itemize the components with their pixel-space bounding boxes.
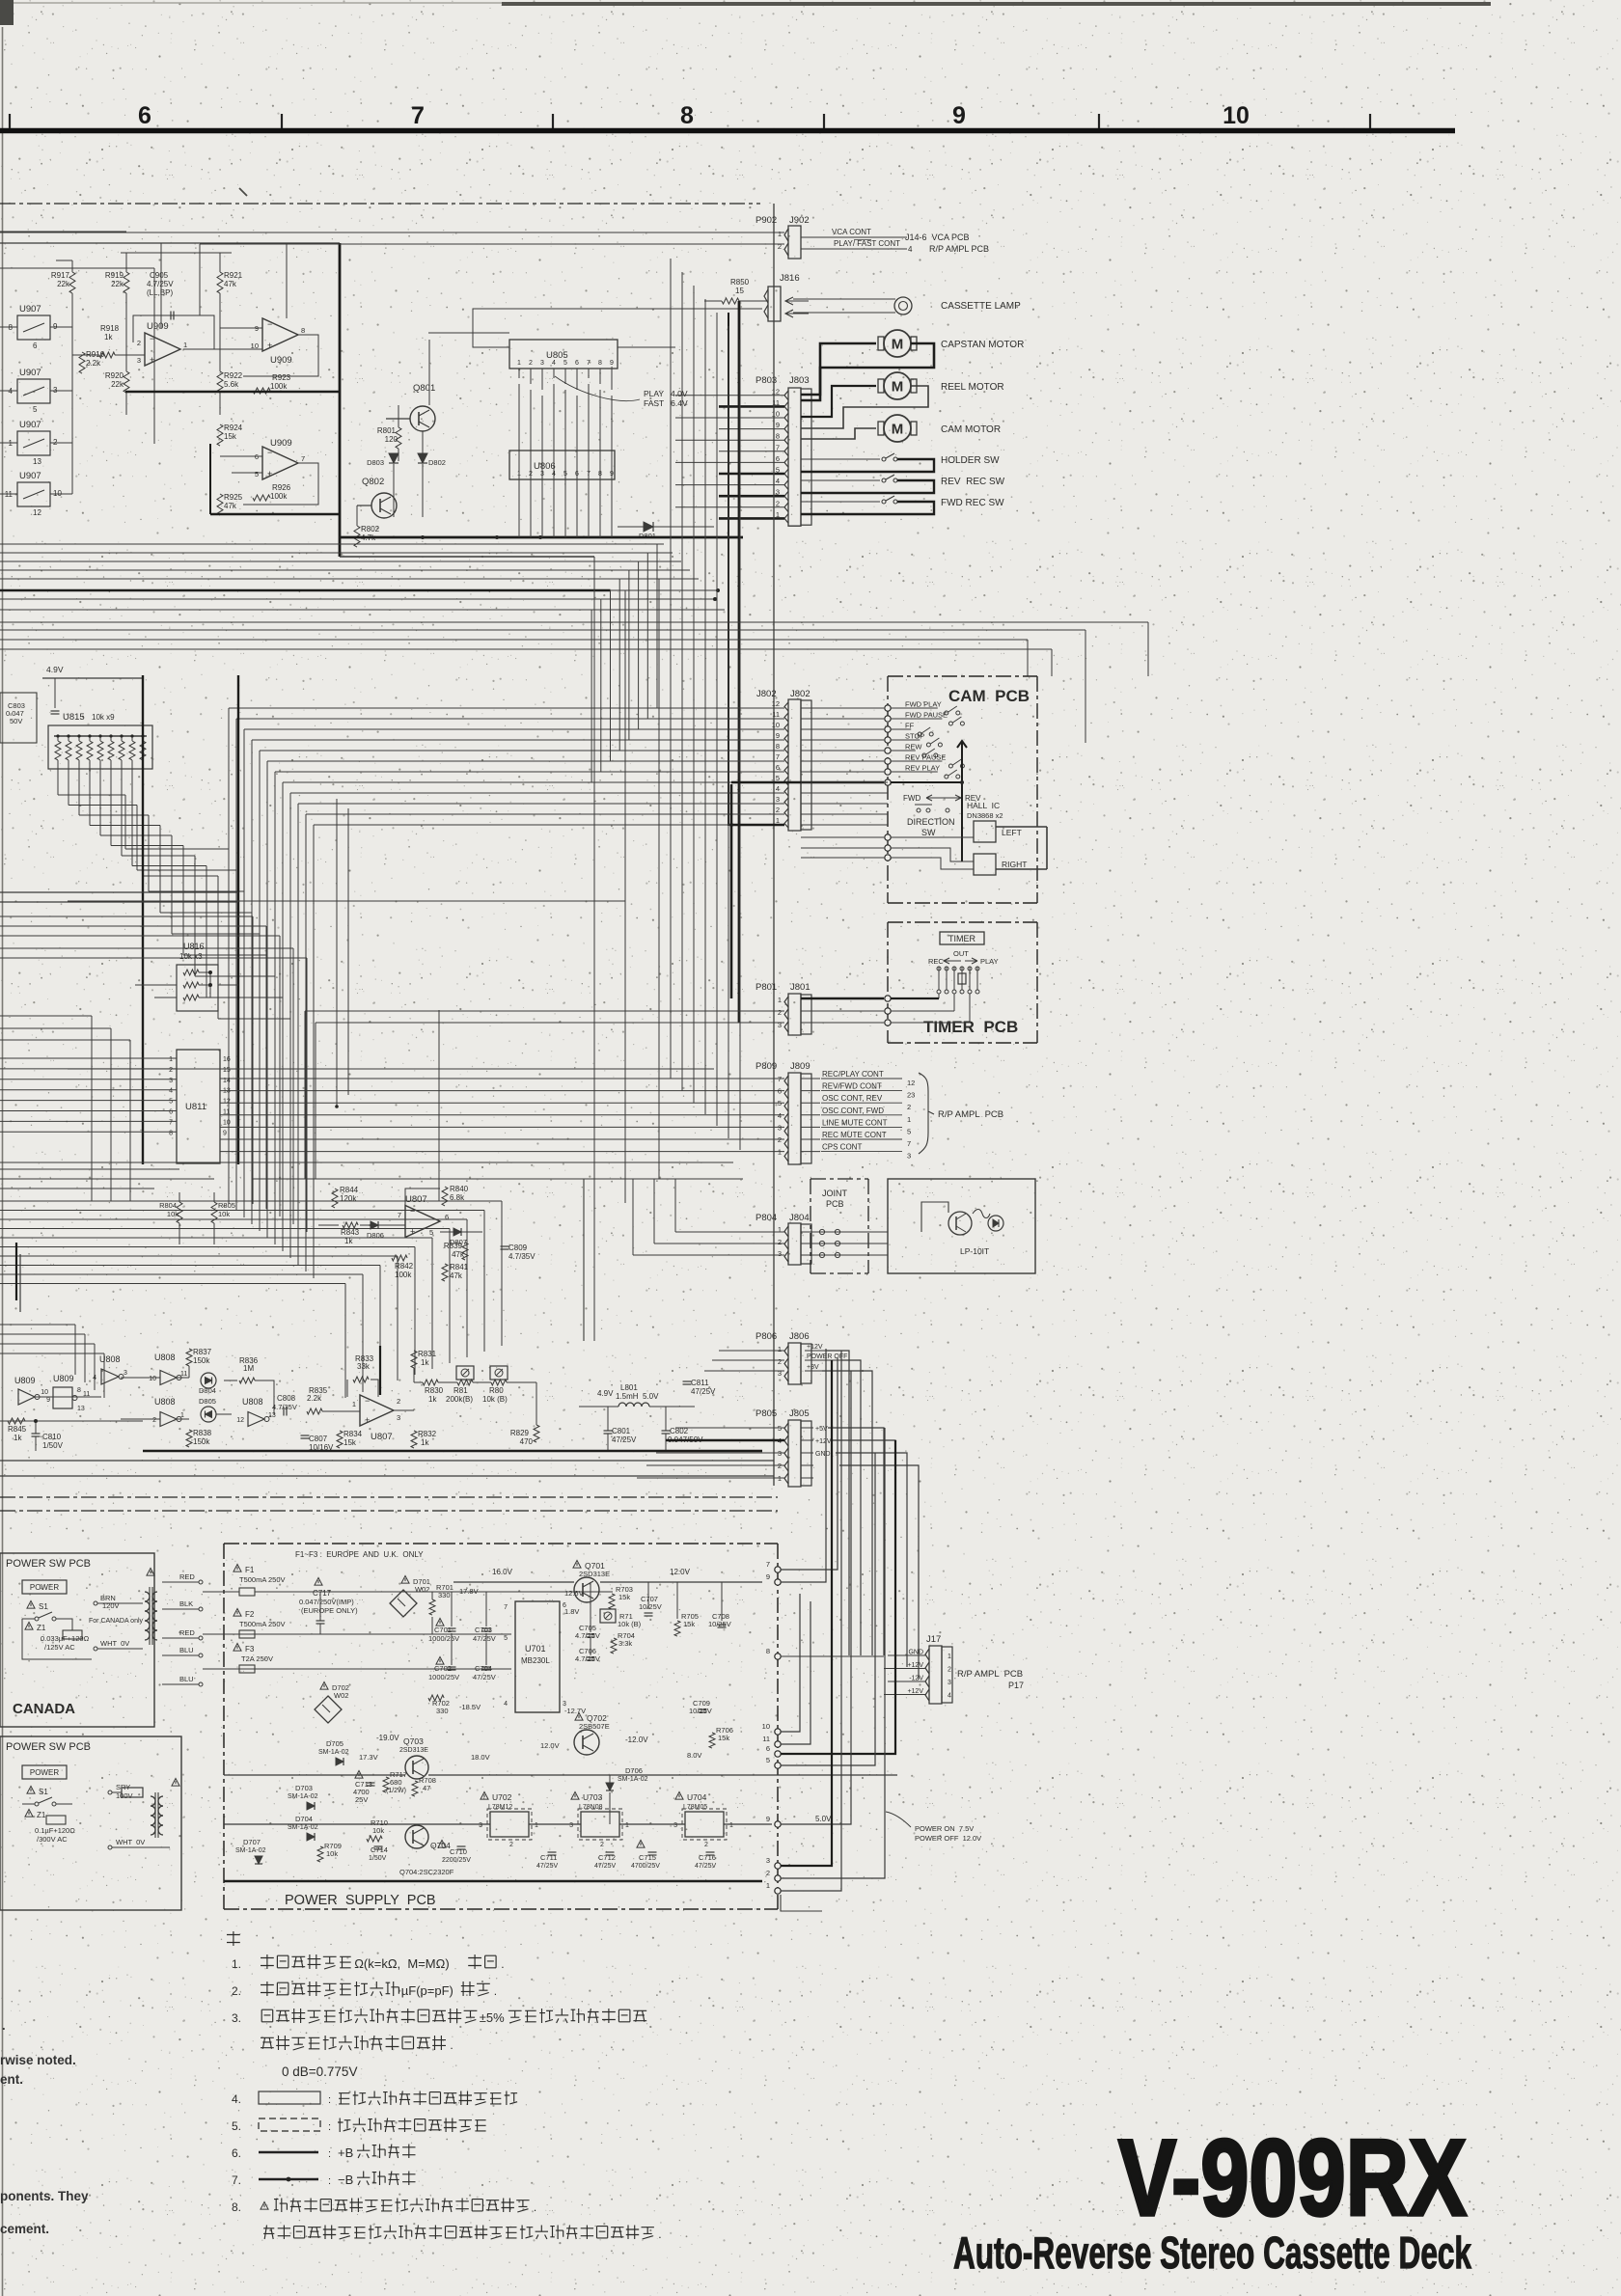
svg-text:RED: RED [179, 1572, 195, 1581]
svg-text:120k: 120k [340, 1194, 357, 1203]
svg-text:CANADA: CANADA [13, 1701, 75, 1717]
svg-text:7.: 7. [232, 2173, 241, 2187]
svg-text:SM-1A-02: SM-1A-02 [235, 1847, 266, 1854]
svg-text:−: − [267, 319, 272, 329]
svg-text:2: 2 [509, 1842, 513, 1848]
svg-text:10k (B): 10k (B) [618, 1620, 642, 1628]
svg-text:CPS CONT: CPS CONT [822, 1143, 862, 1152]
svg-text:13: 13 [77, 1406, 85, 1412]
svg-text:10k x9: 10k x9 [92, 713, 115, 722]
svg-text:8: 8 [598, 360, 602, 367]
svg-text:U909: U909 [270, 438, 292, 449]
svg-text:5: 5 [504, 1635, 508, 1642]
svg-text:U703: U703 [583, 1792, 603, 1802]
svg-text:5: 5 [778, 1099, 782, 1107]
svg-text:C701: C701 [434, 1626, 452, 1634]
svg-text:RIGHT: RIGHT [1002, 860, 1027, 869]
svg-text:200k(B): 200k(B) [446, 1395, 473, 1404]
svg-text:7: 7 [587, 360, 591, 367]
svg-text:100k: 100k [270, 492, 288, 501]
svg-text:D706: D706 [625, 1766, 643, 1775]
svg-text:SM-1A-02: SM-1A-02 [288, 1793, 318, 1800]
svg-text:LINE MUTE CONT: LINE MUTE CONT [822, 1118, 888, 1127]
svg-text:POWER: POWER [30, 1768, 59, 1777]
svg-text:16.0V: 16.0V [492, 1568, 513, 1576]
svg-text:15k: 15k [224, 432, 237, 441]
svg-text:C711: C711 [540, 1853, 557, 1862]
svg-text:4: 4 [776, 477, 780, 485]
svg-text:C808: C808 [277, 1394, 296, 1403]
svg-text:+: + [150, 355, 154, 365]
svg-text:P801: P801 [756, 982, 777, 993]
svg-text:+B: +B [338, 2146, 353, 2160]
svg-text:+: + [365, 1415, 370, 1425]
svg-text:16: 16 [223, 1056, 231, 1063]
svg-text:3: 3 [778, 1369, 782, 1378]
svg-text:12.0V: 12.0V [670, 1568, 691, 1576]
svg-text:8: 8 [169, 1130, 173, 1136]
svg-text:Q704:2SC2320F: Q704:2SC2320F [399, 1868, 454, 1876]
svg-text:D805: D805 [199, 1397, 216, 1406]
svg-text:Z1: Z1 [37, 1811, 46, 1819]
svg-text:C715: C715 [639, 1853, 656, 1862]
svg-text:8: 8 [77, 1387, 81, 1394]
svg-text::: : [328, 2121, 331, 2133]
svg-text:3: 3 [907, 1152, 911, 1161]
svg-text:U909: U909 [147, 321, 169, 332]
svg-text:ent.: ent. [0, 2072, 23, 2087]
svg-text:P805: P805 [756, 1408, 777, 1419]
svg-text:8: 8 [776, 432, 780, 441]
svg-text:150k: 150k [193, 1437, 210, 1446]
svg-text:.: . [494, 1984, 497, 1998]
svg-text:1: 1 [778, 1225, 782, 1234]
svg-text:100k: 100k [395, 1271, 412, 1279]
svg-text:7: 7 [776, 752, 780, 761]
svg-text:POWER ON 7.5V: POWER ON 7.5V [915, 1824, 974, 1833]
svg-text:Q703: Q703 [403, 1736, 424, 1746]
svg-text:0.033µF+120Ω: 0.033µF+120Ω [41, 1634, 90, 1643]
svg-text:P806: P806 [756, 1331, 777, 1342]
svg-text:J805: J805 [789, 1408, 810, 1419]
svg-text:1/50V: 1/50V [369, 1855, 387, 1862]
svg-text:Q802: Q802 [362, 477, 384, 487]
svg-text:LP-10IT: LP-10IT [960, 1246, 989, 1256]
svg-text:470: 470 [520, 1437, 534, 1446]
svg-text:FAST 6.4V: FAST 6.4V [644, 398, 688, 408]
svg-text:−: − [410, 1207, 415, 1216]
svg-text:S1: S1 [39, 1788, 48, 1796]
svg-text:R845: R845 [8, 1425, 27, 1434]
svg-text:M: M [892, 379, 904, 396]
svg-text:+12V: +12V [815, 1438, 832, 1445]
svg-text:R925: R925 [224, 493, 243, 502]
svg-text:4700/25V: 4700/25V [631, 1863, 660, 1870]
svg-text:W02: W02 [334, 1691, 348, 1700]
svg-text:4: 4 [908, 245, 913, 254]
svg-text:REV PAUSE: REV PAUSE [905, 753, 946, 762]
svg-text:STOP: STOP [905, 732, 924, 741]
svg-text:2: 2 [776, 499, 780, 507]
svg-text:8.0V: 8.0V [687, 1751, 701, 1760]
svg-text:OUT: OUT [953, 949, 969, 958]
svg-text:47/25V: 47/25V [612, 1435, 637, 1444]
svg-text:4.7/25V: 4.7/25V [575, 1654, 600, 1663]
svg-text:3: 3 [948, 1680, 951, 1686]
svg-text:R831: R831 [418, 1350, 437, 1358]
svg-text:F3: F3 [245, 1645, 255, 1654]
svg-text:U816: U816 [183, 942, 205, 951]
svg-text::: : [328, 2094, 331, 2106]
svg-text:FF: FF [905, 722, 915, 730]
svg-text:1: 1 [907, 1115, 911, 1124]
svg-text:J803: J803 [789, 375, 810, 386]
svg-text:1000/25V: 1000/25V [428, 1634, 459, 1643]
svg-text:D707: D707 [243, 1838, 261, 1846]
svg-text:10: 10 [223, 1119, 231, 1126]
svg-text:1M: 1M [243, 1364, 254, 1373]
svg-text:2: 2 [778, 1357, 782, 1366]
svg-text:J816: J816 [780, 273, 800, 284]
svg-text:/125V AC: /125V AC [44, 1643, 75, 1652]
svg-text:1: 1 [778, 1148, 782, 1157]
svg-text:R839: R839 [444, 1242, 463, 1250]
svg-text:R923: R923 [272, 373, 291, 382]
svg-text:BLU: BLU [179, 1646, 194, 1654]
svg-text:1: 1 [778, 230, 782, 238]
svg-text:4.9V: 4.9V [46, 665, 64, 674]
svg-text:L78M12: L78M12 [488, 1804, 512, 1811]
svg-text:TIMER PCB: TIMER PCB [923, 1018, 1018, 1036]
svg-text:8: 8 [301, 326, 305, 335]
svg-text:J804: J804 [789, 1213, 810, 1223]
svg-text:3: 3 [673, 1822, 677, 1829]
svg-text:150k: 150k [193, 1356, 210, 1365]
svg-text:2: 2 [778, 1008, 782, 1017]
svg-text:47/25V: 47/25V [594, 1863, 617, 1870]
svg-text:22k: 22k [111, 280, 124, 288]
svg-text:U704: U704 [687, 1792, 707, 1802]
svg-text:−: − [267, 448, 272, 457]
svg-text:2: 2 [766, 1869, 770, 1877]
svg-text:2.2k: 2.2k [86, 359, 101, 368]
svg-text:P809: P809 [756, 1061, 777, 1072]
svg-text:13: 13 [223, 1088, 231, 1095]
svg-text:U808: U808 [99, 1354, 121, 1364]
svg-text:5.6k: 5.6k [224, 380, 239, 389]
svg-text:13: 13 [33, 457, 41, 466]
svg-text:3: 3 [124, 1370, 127, 1377]
svg-text:V-909RX: V-909RX [1118, 2118, 1467, 2238]
svg-text:(LL,BP): (LL,BP) [147, 288, 173, 297]
svg-text:6: 6 [169, 1109, 173, 1116]
svg-text:10k: 10k [326, 1849, 338, 1858]
svg-text:1k: 1k [421, 1358, 429, 1367]
svg-text:5: 5 [33, 405, 38, 414]
svg-text:P804: P804 [756, 1213, 777, 1223]
svg-text:VCA CONT: VCA CONT [832, 228, 871, 236]
svg-text:U808: U808 [242, 1397, 263, 1407]
svg-text:RED: RED [179, 1628, 195, 1637]
svg-text:12: 12 [772, 387, 780, 396]
svg-text:LEFT: LEFT [1002, 828, 1022, 837]
svg-text:REC/PLAY CONT: REC/PLAY CONT [822, 1070, 884, 1079]
svg-text:7: 7 [504, 1604, 508, 1611]
svg-text:330: 330 [436, 1707, 449, 1715]
svg-text:8: 8 [776, 742, 780, 751]
svg-text:F2: F2 [245, 1610, 255, 1619]
svg-text:4: 4 [169, 1088, 173, 1095]
svg-text:R838: R838 [193, 1429, 212, 1437]
svg-text:0 dB=0.775V: 0 dB=0.775V [282, 2064, 357, 2079]
svg-text:U811: U811 [185, 1102, 206, 1112]
svg-text:SM-1A-02: SM-1A-02 [318, 1749, 349, 1756]
svg-text:10: 10 [772, 721, 780, 729]
svg-text:C716: C716 [699, 1853, 716, 1862]
svg-text:47k: 47k [450, 1271, 463, 1280]
svg-text:DN3868 x2: DN3868 x2 [967, 811, 1003, 820]
svg-text:−B: −B [338, 2173, 353, 2187]
svg-text:15: 15 [223, 1067, 231, 1074]
svg-text:−: − [150, 334, 154, 343]
svg-text:12: 12 [223, 1099, 231, 1106]
svg-text:5.: 5. [232, 2119, 241, 2133]
svg-text:U809: U809 [53, 1374, 74, 1383]
svg-text:CAM PCB: CAM PCB [948, 687, 1030, 705]
svg-text:4: 4 [93, 1375, 96, 1381]
svg-text:10: 10 [1223, 102, 1250, 129]
svg-text:6.8k: 6.8k [450, 1193, 465, 1202]
svg-text:OSC CONT, FWD: OSC CONT, FWD [822, 1107, 884, 1115]
svg-text:3: 3 [776, 795, 780, 804]
svg-text:8.: 8. [232, 2200, 241, 2214]
svg-text:R917: R917 [51, 271, 70, 280]
svg-text:47/25V: 47/25V [536, 1863, 559, 1870]
svg-text:2: 2 [169, 1067, 173, 1074]
svg-text:POWER SUPPLY PCB: POWER SUPPLY PCB [285, 1893, 436, 1908]
svg-text:12: 12 [236, 1417, 244, 1424]
svg-text:9: 9 [223, 1130, 227, 1136]
svg-text:1.5mH 5.0V: 1.5mH 5.0V [616, 1392, 659, 1401]
svg-text:2: 2 [137, 339, 141, 347]
svg-text:+: + [410, 1227, 415, 1237]
svg-text:C717: C717 [313, 1589, 332, 1598]
svg-text:47/25V: 47/25V [691, 1387, 716, 1396]
svg-text:12: 12 [772, 699, 780, 708]
svg-text:3.: 3. [232, 2011, 241, 2025]
svg-text:U907: U907 [19, 304, 41, 314]
svg-text:2SD313E: 2SD313E [579, 1570, 610, 1578]
svg-text:J17: J17 [926, 1634, 941, 1645]
svg-text:J14-6 VCA PCB: J14-6 VCA PCB [905, 232, 970, 242]
svg-text:/300V AC: /300V AC [37, 1835, 68, 1844]
svg-text:47k: 47k [452, 1250, 465, 1259]
svg-text:2: 2 [778, 1238, 782, 1246]
svg-text:J801: J801 [790, 982, 810, 993]
svg-text:R80: R80 [489, 1386, 504, 1395]
svg-text:R81: R81 [453, 1386, 468, 1395]
svg-text:rwise noted.: rwise noted. [0, 2053, 76, 2067]
svg-text:µF(p=pF): µF(p=pF) [401, 1983, 453, 1998]
svg-text:6: 6 [445, 1213, 449, 1221]
svg-text:PLAY: PLAY [980, 957, 999, 966]
svg-text:10k (B): 10k (B) [482, 1395, 508, 1404]
svg-text:U907: U907 [19, 368, 41, 378]
svg-text:8: 8 [766, 1647, 770, 1655]
svg-text:R920: R920 [105, 371, 124, 380]
svg-text:1k: 1k [14, 1434, 22, 1442]
svg-text:6: 6 [776, 454, 780, 463]
svg-text:REC MUTE CONT: REC MUTE CONT [822, 1131, 887, 1139]
svg-text:P17: P17 [1008, 1681, 1024, 1690]
svg-text:R/P AMPL PCB: R/P AMPL PCB [938, 1109, 1003, 1120]
svg-text:1: 1 [169, 1056, 173, 1063]
svg-text:F1~F3 : EUROPE AND U.K. ON: F1~F3 : EUROPE AND U.K. ONLY [295, 1550, 424, 1559]
svg-text:D704: D704 [295, 1815, 313, 1823]
svg-text:8: 8 [680, 102, 694, 129]
svg-text:REC: REC [928, 957, 944, 966]
svg-text:PLAY/ FAST CONT: PLAY/ FAST CONT [834, 239, 900, 248]
svg-text:U809: U809 [14, 1376, 36, 1385]
svg-text:7: 7 [766, 1560, 770, 1569]
svg-text:POWER SW PCB: POWER SW PCB [6, 1741, 91, 1753]
svg-text:-12.0V: -12.0V [625, 1736, 648, 1744]
svg-text:17.3V: 17.3V [359, 1753, 378, 1762]
svg-text:REV REC SW: REV REC SW [941, 477, 1005, 487]
svg-text:2.2k: 2.2k [307, 1394, 322, 1403]
svg-text:1000/25V: 1000/25V [428, 1673, 459, 1681]
svg-text:FWD: FWD [903, 794, 920, 803]
svg-text:R922: R922 [224, 371, 243, 380]
svg-text:Ω(k=kΩ, M=MΩ): Ω(k=kΩ, M=MΩ) [354, 1956, 450, 1971]
svg-text:C710: C710 [450, 1847, 467, 1856]
svg-text:9: 9 [766, 1815, 770, 1823]
svg-text:U907: U907 [19, 471, 41, 481]
svg-text:PLAY 4.0V: PLAY 4.0V [644, 389, 688, 398]
svg-text:23: 23 [907, 1091, 915, 1100]
svg-text:1: 1 [535, 1822, 538, 1829]
svg-text:U907: U907 [19, 420, 41, 430]
svg-text:47k: 47k [224, 502, 237, 510]
svg-text:1.8V: 1.8V [564, 1607, 579, 1616]
svg-text:6.: 6. [232, 2146, 241, 2160]
svg-text:CAM MOTOR: CAM MOTOR [941, 424, 1001, 435]
svg-text:2SB507E: 2SB507E [579, 1722, 610, 1731]
svg-text:7: 7 [776, 443, 780, 451]
svg-text:(EUROPE ONLY): (EUROPE ONLY) [301, 1606, 358, 1615]
svg-text:SM-1A-02: SM-1A-02 [618, 1776, 648, 1783]
svg-text:.: . [450, 2038, 453, 2052]
svg-text:R830: R830 [425, 1386, 444, 1395]
svg-text:R840: R840 [450, 1185, 469, 1193]
svg-text:100k: 100k [270, 382, 288, 391]
svg-text:3: 3 [778, 1021, 782, 1029]
svg-text:0.1µF+120Ω: 0.1µF+120Ω [35, 1826, 75, 1835]
svg-text:WHT 0V: WHT 0V [116, 1838, 145, 1846]
svg-text:S1: S1 [39, 1602, 48, 1611]
svg-text:3: 3 [137, 356, 141, 365]
svg-text:L801: L801 [620, 1383, 638, 1392]
svg-text:1: 1 [766, 1881, 770, 1890]
svg-text:FWD PAUSE: FWD PAUSE [905, 711, 948, 720]
svg-text:1: 1 [778, 996, 782, 1004]
svg-text:1: 1 [517, 360, 521, 367]
svg-text:3: 3 [778, 1123, 782, 1132]
svg-text:FWD PLAY: FWD PLAY [905, 700, 942, 709]
svg-text:15k: 15k [343, 1438, 357, 1447]
svg-text:+12V: +12V [807, 1344, 823, 1351]
svg-text:.: . [2, 2018, 6, 2033]
svg-text:0.047/250V(IMP): 0.047/250V(IMP) [299, 1598, 354, 1606]
svg-text:SM-1A-02: SM-1A-02 [288, 1824, 318, 1831]
svg-text:4.7/35V: 4.7/35V [272, 1403, 297, 1411]
svg-text:C810: C810 [42, 1433, 62, 1441]
svg-text:47/25V: 47/25V [473, 1634, 496, 1643]
svg-text:10/25V: 10/25V [639, 1602, 662, 1611]
svg-text:.: . [658, 2228, 661, 2241]
svg-text:12.0V: 12.0V [540, 1741, 560, 1750]
svg-text:F1: F1 [245, 1566, 255, 1574]
svg-text:5: 5 [776, 774, 780, 782]
svg-text:U702: U702 [492, 1792, 512, 1802]
svg-text:BLU: BLU [179, 1675, 194, 1683]
svg-text:HALL IC: HALL IC [967, 801, 1000, 810]
svg-text:C811: C811 [691, 1379, 709, 1387]
svg-text:5: 5 [169, 1099, 173, 1106]
svg-text:C905: C905 [150, 271, 169, 280]
svg-text:U909: U909 [270, 355, 292, 366]
svg-text:R842: R842 [395, 1262, 414, 1271]
svg-text:GND: GND [815, 1451, 831, 1458]
svg-text:17.8V: 17.8V [459, 1587, 479, 1596]
svg-text:R829: R829 [510, 1429, 530, 1437]
svg-text:R843: R843 [341, 1228, 360, 1237]
svg-text:18.0V: 18.0V [471, 1753, 490, 1762]
svg-text:J806: J806 [789, 1331, 810, 1342]
svg-text:15k: 15k [683, 1620, 695, 1628]
svg-text:47/25V: 47/25V [695, 1863, 717, 1870]
svg-text:U807: U807 [371, 1432, 393, 1442]
svg-text:10: 10 [41, 1389, 48, 1396]
svg-text:D806: D806 [367, 1231, 384, 1240]
svg-text:3: 3 [766, 1856, 770, 1865]
svg-text:POWER OFF 12.0V: POWER OFF 12.0V [915, 1834, 981, 1843]
svg-text:TIMER: TIMER [948, 934, 975, 943]
svg-text:5.0V: 5.0V [815, 1815, 832, 1823]
svg-text:POWER SW PCB: POWER SW PCB [6, 1558, 91, 1570]
svg-text:10k: 10k [372, 1826, 384, 1835]
svg-text:.: . [501, 1957, 504, 1971]
svg-text:OSC CONT, REV: OSC CONT, REV [822, 1094, 883, 1103]
svg-text:11: 11 [180, 1371, 187, 1378]
svg-text:10k: 10k [167, 1210, 179, 1218]
svg-text:2: 2 [948, 1667, 951, 1674]
svg-text:680: 680 [390, 1778, 402, 1787]
svg-text:cement.: cement. [0, 2222, 49, 2236]
svg-text:4: 4 [948, 1693, 951, 1700]
svg-text:1/50V: 1/50V [42, 1441, 64, 1450]
svg-text:1: 1 [625, 1822, 629, 1829]
svg-text:47k: 47k [224, 280, 237, 288]
svg-text:4.7/25V: 4.7/25V [147, 280, 174, 288]
svg-text:Auto-Reverse Stereo Cassette D: Auto-Reverse Stereo Cassette Deck [953, 2228, 1471, 2278]
svg-text:-12.7V: -12.7V [564, 1707, 586, 1715]
svg-text:D801: D801 [639, 532, 656, 540]
svg-text:C801: C801 [612, 1427, 631, 1435]
svg-text:R832: R832 [418, 1430, 437, 1438]
svg-text::: : [328, 2175, 331, 2187]
svg-text:+: + [267, 341, 272, 350]
